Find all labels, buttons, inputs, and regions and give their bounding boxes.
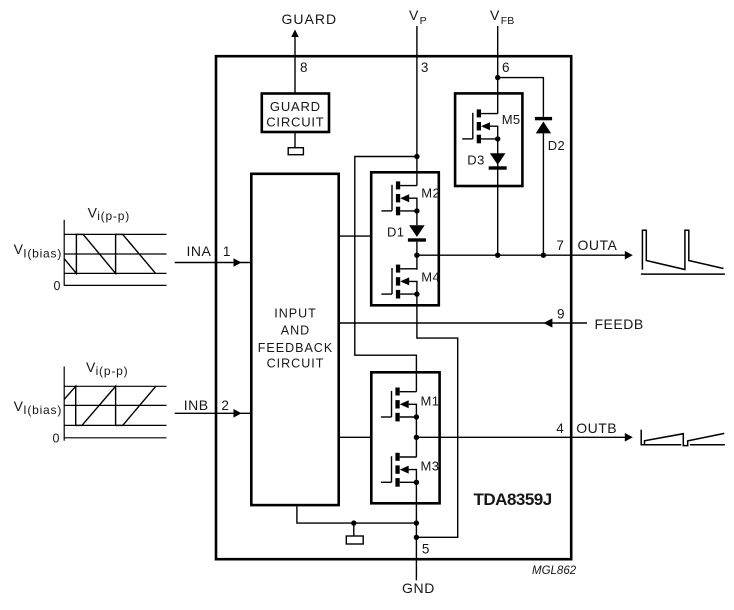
- wire pin6 to D2 top: [498, 78, 544, 117]
- svg-text:I(bias): I(bias): [23, 246, 62, 260]
- wire M3 source down to gnd junction: [415, 482, 417, 580]
- INA waveform plot: [64, 220, 166, 286]
- IC boundary box TDA8359J: [216, 56, 571, 559]
- transistor M5: [462, 109, 500, 143]
- svg-text:I(bias): I(bias): [23, 403, 62, 417]
- junction D1/M4/OUTA node: [414, 253, 419, 258]
- wire guard circuit to pad: [294, 133, 296, 148]
- wire M5 source through D3 down to OUTA line: [497, 139, 499, 255]
- svg-text:M3: M3: [421, 458, 440, 473]
- wire M1 source to node OUTB: [415, 417, 417, 457]
- svg-text:CIRCUIT: CIRCUIT: [266, 115, 324, 130]
- block INPUT AND FEEDBACK CIRCUIT: [251, 174, 338, 505]
- svg-text:8: 8: [300, 60, 308, 75]
- svg-text:INB: INB: [184, 397, 209, 413]
- wire INA pin 1: [175, 262, 250, 264]
- block M5/D3: [455, 93, 522, 186]
- wire VP branch to M1 drain: [355, 157, 417, 392]
- wire OUTA pin 7: [417, 254, 627, 256]
- svg-text:INPUT: INPUT: [274, 306, 317, 320]
- svg-text:M5: M5: [502, 112, 521, 127]
- svg-text:M1: M1: [421, 393, 440, 408]
- svg-text:1: 1: [223, 244, 231, 259]
- svg-text:D1: D1: [387, 225, 404, 240]
- transistor M4: [381, 265, 419, 299]
- diode D1 (cathode down): [408, 225, 426, 241]
- svg-text:2: 2: [221, 398, 229, 413]
- junction pin6 branch: [495, 75, 500, 80]
- svg-text:V: V: [490, 7, 500, 23]
- svg-text:FEEDBACK: FEEDBACK: [258, 341, 333, 355]
- diode D3 (cathode down): [489, 153, 507, 169]
- arrow INB: [234, 409, 242, 418]
- wire M2 source to D1: [416, 211, 418, 225]
- transistor M1: [381, 388, 419, 422]
- svg-text:6: 6: [502, 60, 510, 75]
- svg-text:GUARD: GUARD: [282, 11, 338, 27]
- svg-text:TDA8359J: TDA8359J: [474, 490, 552, 509]
- svg-text:9: 9: [557, 307, 565, 322]
- wire OUTB pin 4: [416, 436, 627, 438]
- svg-text:V: V: [88, 204, 98, 220]
- arrow up to GUARD: [291, 30, 299, 38]
- svg-text:4: 4: [556, 421, 564, 436]
- svg-text:P: P: [420, 15, 427, 27]
- arrow INA: [234, 258, 242, 267]
- junction M1/M3/OUTB node: [414, 435, 419, 440]
- guard pad symbol: [288, 148, 303, 155]
- junction pad stub: [351, 520, 356, 525]
- svg-text:GND: GND: [402, 580, 435, 596]
- svg-text:AND: AND: [281, 324, 310, 338]
- wire input circuit bottom to gnd: [297, 506, 417, 523]
- svg-text:OUTB: OUTB: [576, 420, 617, 436]
- arrow OUTB: [625, 433, 633, 442]
- diode D2 (cathode up): [535, 117, 552, 133]
- transistor M2: [381, 181, 419, 215]
- svg-text:FB: FB: [501, 15, 514, 27]
- junction gnd 2 (pin 5): [414, 535, 419, 540]
- block GUARD CIRCUIT: [262, 94, 329, 133]
- junction gnd 1: [414, 520, 419, 525]
- wire input circuit to lower stage: [340, 436, 370, 438]
- block lower output stage: [371, 372, 439, 503]
- svg-text:V: V: [14, 398, 24, 414]
- wire VFB pin 6 vertical down to M5 drain: [497, 26, 499, 114]
- svg-text:i(p-p): i(p-p): [97, 209, 130, 223]
- svg-text:M2: M2: [421, 186, 440, 201]
- OUTB waveform (sawtooth ramps): [641, 430, 725, 446]
- svg-text:GUARD: GUARD: [270, 99, 321, 114]
- svg-text:3: 3: [421, 60, 429, 75]
- transistor M3: [381, 453, 419, 487]
- svg-text:i(p-p): i(p-p): [96, 364, 129, 378]
- wire D1 to node OUTA: [416, 242, 418, 270]
- wire INB pin 2: [175, 412, 250, 414]
- junction VP branch: [414, 154, 419, 159]
- svg-text:7: 7: [556, 238, 564, 253]
- wire FEEDB pin 9: [340, 322, 587, 324]
- arrow FEEDB: [543, 318, 552, 327]
- gnd pad symbol: [346, 536, 363, 544]
- svg-text:V: V: [14, 241, 24, 257]
- junction D3 line on OUTA: [495, 253, 500, 258]
- wire M4 source to ground rail: [416, 294, 457, 537]
- wire pad stub: [353, 523, 355, 536]
- OUTA waveform (flyback pulses): [641, 230, 725, 274]
- svg-text:M4: M4: [421, 269, 440, 284]
- svg-text:0: 0: [54, 279, 61, 293]
- svg-text:V: V: [86, 359, 96, 375]
- svg-text:CIRCUIT: CIRCUIT: [267, 356, 325, 370]
- svg-text:D3: D3: [467, 153, 484, 168]
- wire input circuit to upper stage: [340, 235, 370, 237]
- svg-text:5: 5: [422, 541, 430, 556]
- svg-text:0: 0: [53, 432, 60, 446]
- svg-text:MGL862: MGL862: [532, 565, 577, 577]
- block upper output stage: [371, 172, 439, 305]
- wire VP pin 3 vertical down to M2 drain: [416, 26, 418, 186]
- svg-text:INA: INA: [187, 243, 212, 259]
- junction D2 on OUTA: [541, 253, 546, 258]
- wire guard pin 8 vertical: [294, 34, 296, 94]
- arrow OUTA: [625, 251, 633, 260]
- svg-text:V: V: [409, 7, 419, 23]
- svg-text:FEEDB: FEEDB: [595, 316, 644, 332]
- svg-text:OUTA: OUTA: [578, 237, 618, 253]
- svg-text:D2: D2: [548, 138, 565, 153]
- INB waveform plot: [64, 367, 166, 441]
- wire D2 to OUTA line: [542, 133, 544, 255]
